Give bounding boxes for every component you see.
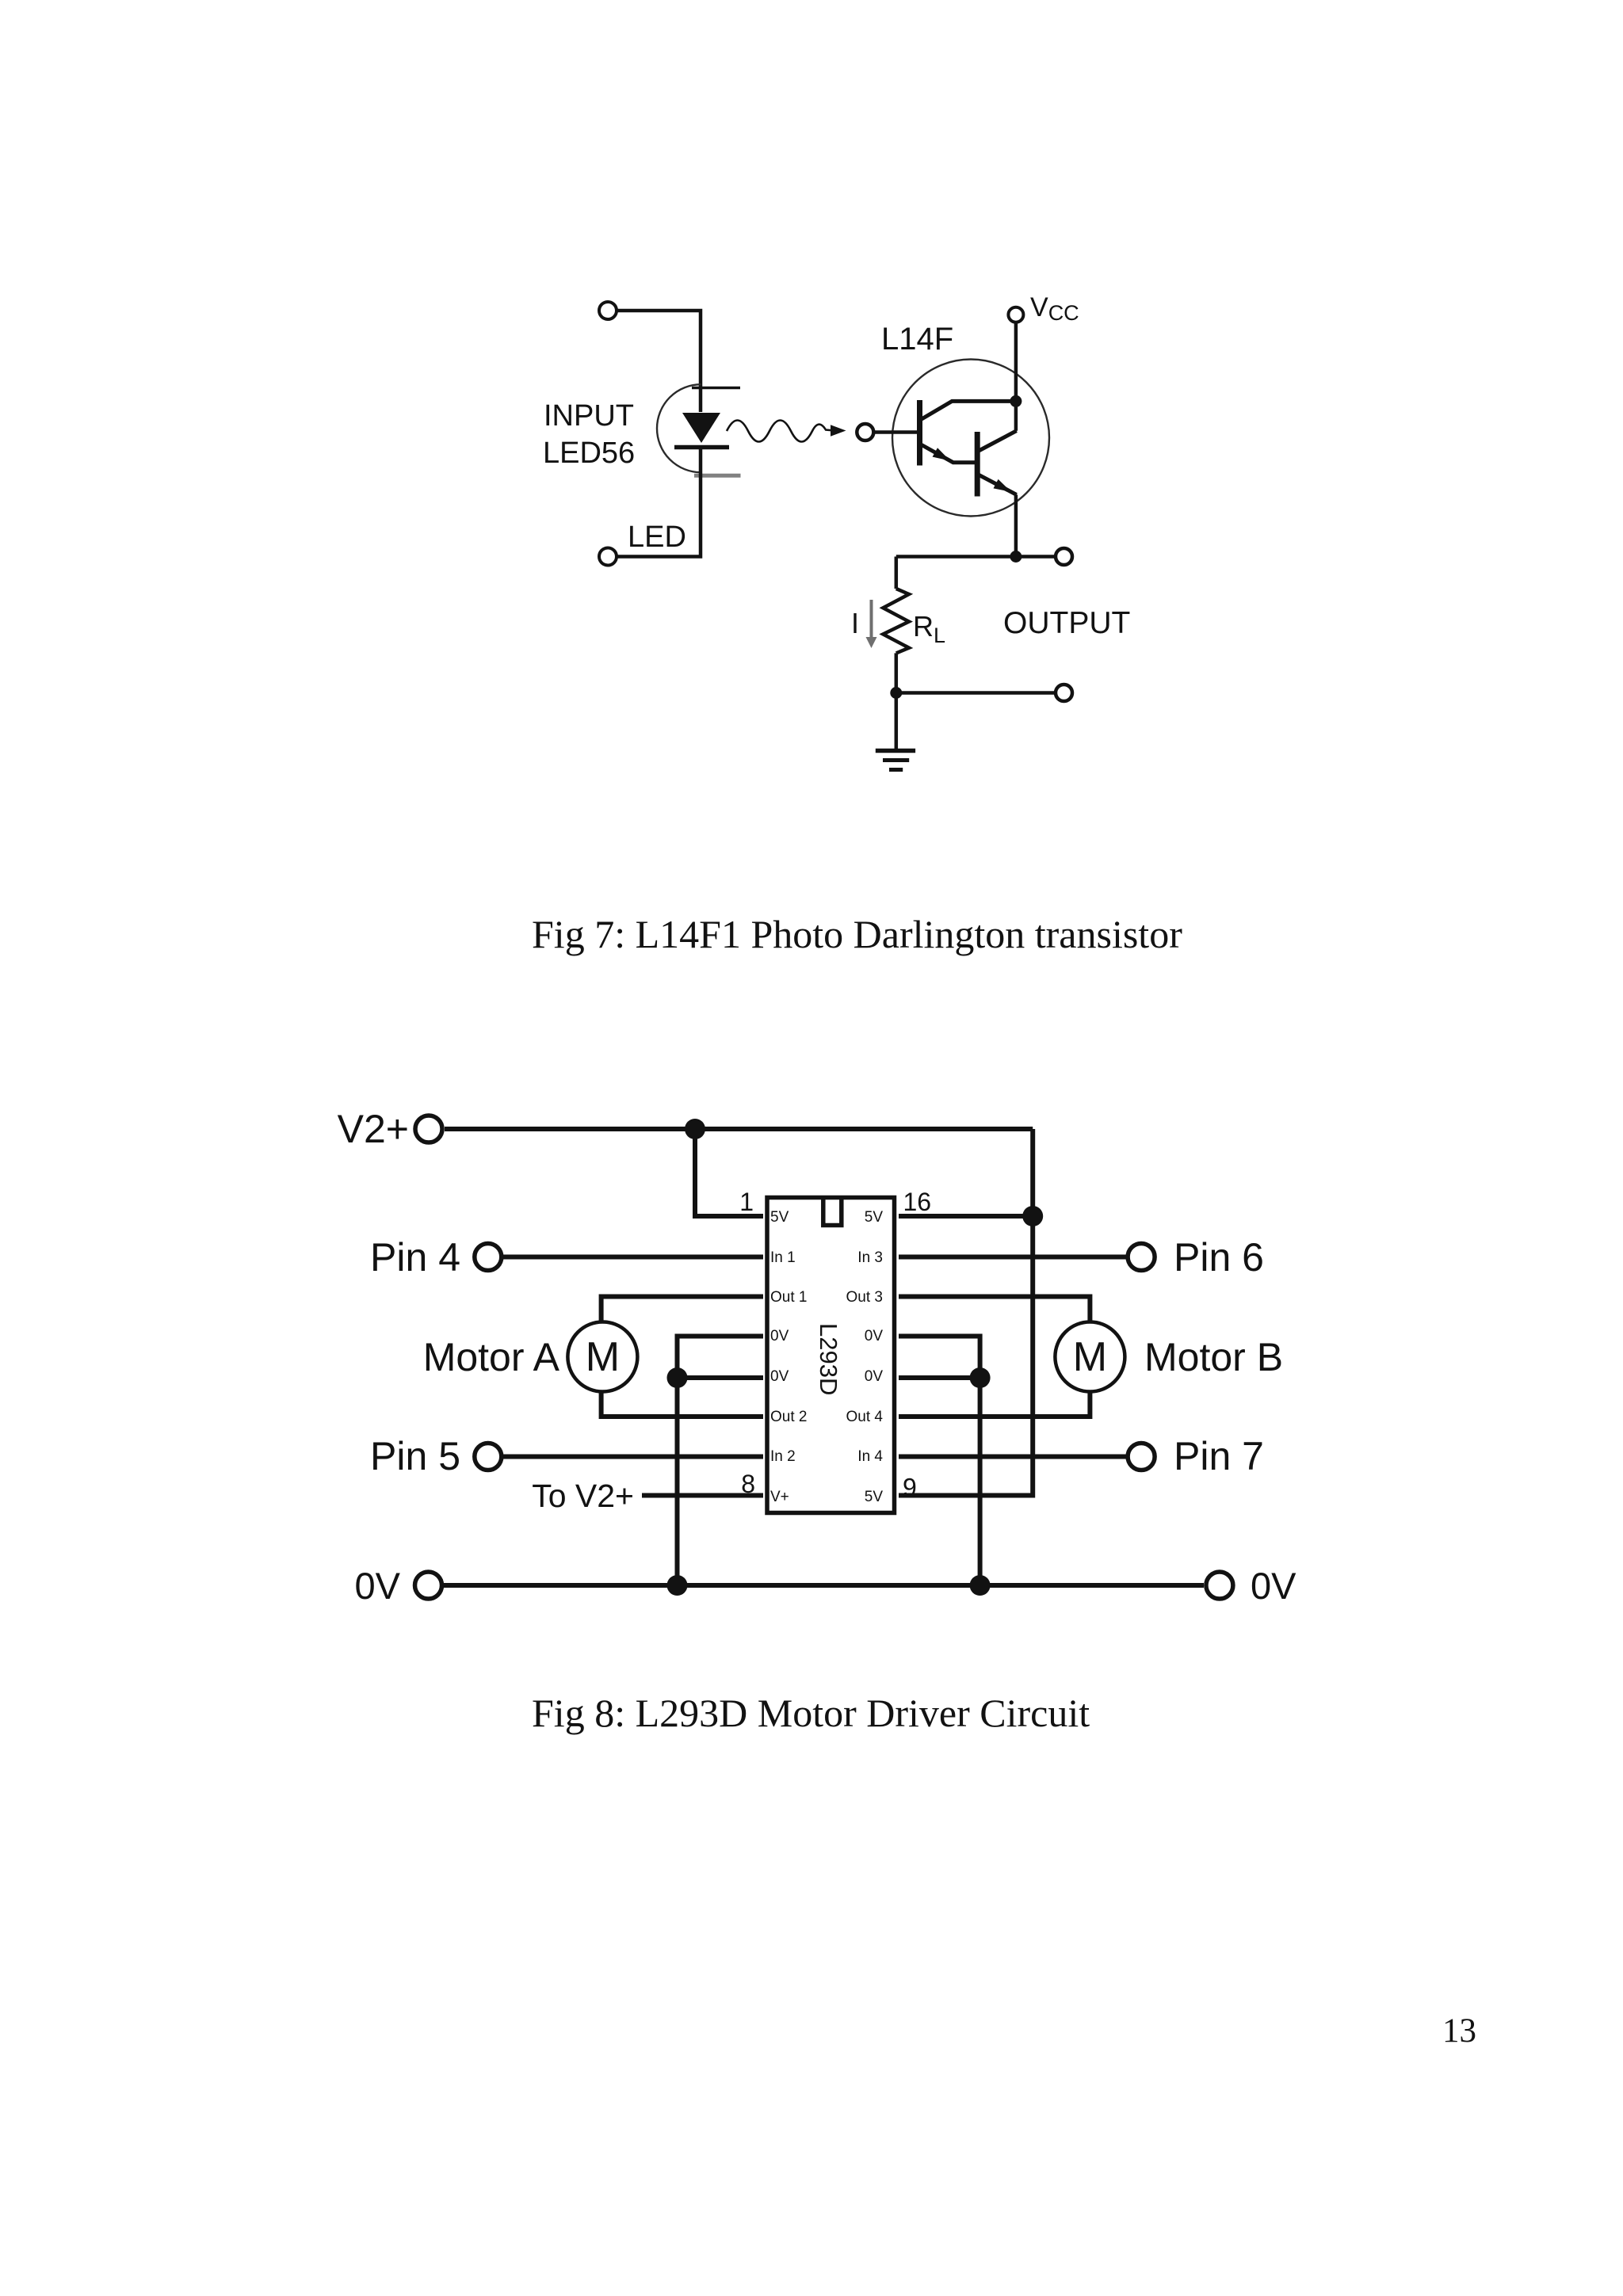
wire 0V left row3	[678, 1337, 764, 1586]
wire In1	[503, 1255, 763, 1260]
svg-text:In 2: In 2	[770, 1448, 796, 1465]
wire resistor to ground node	[895, 653, 899, 692]
transistor Q1 collector	[921, 401, 1016, 419]
svg-text:M: M	[586, 1334, 620, 1380]
wire V2+ rail	[445, 1127, 1033, 1131]
svg-text:0V: 0V	[770, 1328, 789, 1344]
wire 0V left row4	[678, 1375, 764, 1380]
svg-text:L293D: L293D	[815, 1323, 842, 1395]
optocoupler package arc	[657, 384, 701, 472]
svg-text:Out 4: Out 4	[846, 1409, 884, 1425]
package top lead line	[692, 387, 740, 390]
wire 0V right row4	[899, 1375, 980, 1380]
terminal 0V left	[415, 1572, 442, 1599]
wire	[617, 311, 701, 412]
terminal Vcc	[1008, 307, 1023, 322]
terminal V2+	[415, 1116, 442, 1142]
svg-text:VCC: VCC	[1030, 292, 1079, 325]
wire to ground	[895, 693, 899, 750]
resistor RL zigzag	[883, 589, 909, 653]
wire base	[874, 430, 918, 434]
svg-text:L14F: L14F	[881, 322, 953, 357]
wire Vcc to collector	[1014, 322, 1018, 431]
wire Out1 to Motor A	[601, 1297, 763, 1323]
LED D1 cathode bar	[674, 445, 729, 450]
svg-text:Out 1: Out 1	[770, 1289, 807, 1306]
svg-text:INPUT: INPUT	[544, 399, 634, 433]
terminal output-top	[1056, 548, 1072, 565]
svg-text:1: 1	[739, 1188, 754, 1216]
svg-text:0V: 0V	[355, 1565, 401, 1607]
svg-text:9: 9	[903, 1474, 917, 1502]
phototransistor U1 envelope	[892, 360, 1049, 517]
svg-text:16: 16	[903, 1188, 932, 1216]
svg-text:LED: LED	[628, 521, 686, 554]
terminal output-bottom	[1056, 685, 1072, 701]
svg-text:Fig 8: L293D Motor Driver Circ: Fig 8: L293D Motor Driver Circuit	[532, 1691, 1090, 1735]
wire In3 to Pin 6	[899, 1255, 1126, 1260]
svg-text:RL: RL	[913, 610, 945, 647]
wire To V2+	[642, 1493, 763, 1498]
svg-text:Out 3: Out 3	[846, 1289, 883, 1306]
node 0V rail right	[970, 1575, 991, 1596]
svg-text:LED56: LED56	[543, 437, 635, 470]
ground	[876, 751, 915, 770]
svg-text:Motor B: Motor B	[1144, 1335, 1283, 1379]
wire to resistor	[895, 557, 899, 589]
svg-text:In 3: In 3	[857, 1249, 883, 1266]
transistor Q2 base bar	[975, 432, 980, 497]
package bottom lead line (gray)	[694, 474, 741, 478]
svg-text:V+: V+	[770, 1489, 789, 1505]
transistor Q2 emitter	[979, 475, 1017, 494]
node output junction	[1010, 551, 1022, 563]
svg-text:Pin 7: Pin 7	[1174, 1434, 1264, 1478]
transistor Q1 emitter	[921, 444, 976, 463]
wire 0V rail	[444, 1583, 1204, 1588]
wire Out4 to Motor B	[899, 1391, 1090, 1417]
terminal input-top	[599, 302, 617, 319]
transistor Q1 base bar	[917, 400, 922, 466]
terminal Pin 5	[475, 1444, 502, 1470]
wire	[617, 449, 701, 557]
node 0V right	[970, 1367, 991, 1388]
svg-text:0V: 0V	[1251, 1565, 1296, 1607]
wire Out2 to Motor A	[601, 1391, 763, 1417]
svg-text:In 1: In 1	[770, 1249, 796, 1266]
wire pin16	[899, 1214, 1033, 1219]
wire output row	[896, 555, 1055, 559]
wire 0V right row3	[899, 1337, 980, 1586]
svg-text:0V: 0V	[865, 1328, 884, 1344]
svg-text:Pin 4: Pin 4	[370, 1235, 460, 1280]
wire emitter down	[1014, 494, 1018, 556]
IC notch	[823, 1198, 842, 1226]
wire In2	[503, 1455, 763, 1459]
node pin16 junction	[1022, 1206, 1043, 1226]
terminal 0V right	[1206, 1572, 1233, 1599]
wire V2+ to pin 1	[695, 1129, 763, 1216]
wire V2+ right vertical to pin 9	[899, 1129, 1033, 1496]
motor A circle	[567, 1322, 637, 1392]
Q2 emitter arrow	[994, 479, 1012, 492]
IC U1 L293D body	[767, 1198, 895, 1513]
Q1 emitter arrow	[933, 448, 950, 460]
svg-text:V2+: V2+	[338, 1107, 409, 1151]
svg-text:OUTPUT: OUTPUT	[1003, 606, 1130, 640]
wire Out3 to Motor B	[899, 1297, 1090, 1323]
node ground junction	[890, 687, 902, 699]
node 0V rail left	[667, 1575, 688, 1596]
node V2+ junction	[685, 1119, 705, 1139]
svg-text:M: M	[1073, 1334, 1107, 1380]
svg-text:5V: 5V	[865, 1209, 884, 1226]
svg-text:5V: 5V	[770, 1209, 789, 1226]
svg-text:To V2+: To V2+	[532, 1478, 634, 1514]
node 0V left	[667, 1367, 688, 1388]
terminal base-input	[857, 424, 873, 441]
svg-text:Pin 6: Pin 6	[1174, 1235, 1264, 1280]
transistor Q2 collector	[979, 431, 1017, 451]
wire In4 to Pin 7	[899, 1455, 1126, 1459]
motor B circle	[1055, 1322, 1125, 1392]
svg-text:In 4: In 4	[857, 1448, 883, 1465]
svg-text:5V: 5V	[865, 1489, 884, 1505]
svg-text:0V: 0V	[865, 1368, 884, 1385]
svg-text:13: 13	[1442, 2012, 1476, 2050]
svg-text:Motor A: Motor A	[423, 1335, 560, 1379]
svg-text:0V: 0V	[770, 1368, 789, 1385]
svg-text:Pin 5: Pin 5	[370, 1434, 460, 1478]
terminal Pin 7	[1128, 1444, 1155, 1470]
terminal Pin 4	[475, 1244, 502, 1271]
svg-text:I: I	[851, 607, 859, 639]
terminal input-bottom	[599, 548, 617, 566]
LED D1 anode triangle	[682, 413, 720, 443]
svg-text:Out 2: Out 2	[770, 1409, 807, 1425]
terminal Pin 6	[1128, 1244, 1155, 1271]
wire output-bottom row	[896, 691, 1055, 695]
light wave arrow	[727, 421, 846, 442]
svg-text:Fig 7: L14F1 Photo Darlington: Fig 7: L14F1 Photo Darlington transistor	[532, 912, 1182, 956]
current arrow I	[866, 600, 877, 648]
node collector junction	[1010, 395, 1022, 407]
